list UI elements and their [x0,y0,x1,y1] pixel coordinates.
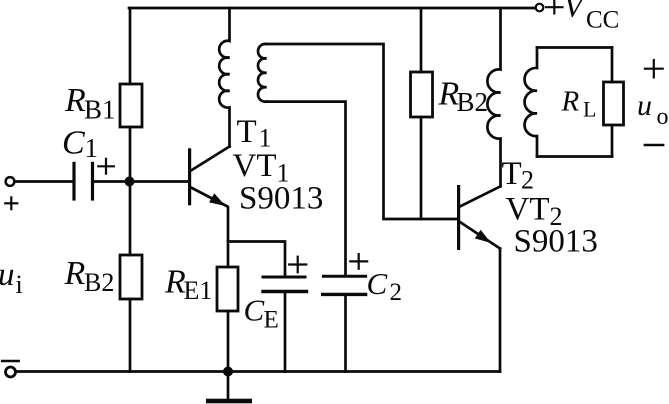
junction dot ground node [223,367,233,377]
svg-text:B2: B2 [84,268,114,297]
transformer TR2 secondary winding [525,48,537,157]
label - (output) [645,144,663,147]
wire bottom ground rail [16,370,500,373]
capacitor C_E [263,277,307,372]
junction dot base node [125,177,135,187]
wire input terminal to C1 [15,180,73,183]
svg-text:T: T [502,156,522,192]
svg-text:L: L [583,97,596,122]
svg-text:C: C [367,266,388,301]
capacitor C2 [323,276,366,371]
svg-text:S9013: S9013 [239,181,323,217]
wire C1 to VT1 base [94,180,189,183]
svg-text:R: R [64,82,86,119]
transistor VT1 [188,147,230,207]
svg-text:E: E [264,307,279,334]
svg-text:2: 2 [390,279,403,306]
label +Vcc [546,1,563,13]
svg-text:VT: VT [233,148,277,184]
capacitor C1 [74,163,93,199]
svg-text:E1: E1 [184,276,213,305]
resistor R_B2' (VT2 bias) [411,8,433,219]
svg-text:VT: VT [506,192,550,228]
svg-text:o: o [657,104,669,130]
resistor R_B2 (bias divider lower) [120,182,142,372]
transformer TR1 secondary winding [258,44,267,102]
svg-text:V: V [564,0,587,24]
svg-text:i: i [16,270,23,299]
resistor R_L [604,48,624,157]
polarity + of C_E [289,257,306,273]
svg-text:C: C [62,125,85,162]
svg-text:u: u [0,257,15,293]
input terminal - (bottom) [6,367,16,377]
svg-text:S9013: S9013 [514,224,598,260]
terminal +Vcc [536,4,544,12]
resistor R_B1 [120,8,142,182]
wire VT1 emitter node to C_E [228,242,285,276]
transformer TR1 primary winding [219,8,229,147]
polarity + of C1 [98,159,114,174]
svg-text:B2: B2 [457,87,489,117]
label + (output) [645,60,663,77]
transistor VT2 [457,185,500,372]
label + at input [5,197,17,209]
input terminal + (top) [6,177,15,186]
polarity + of C2 [350,254,367,269]
resistor R_E1 [217,208,238,372]
svg-text:1: 1 [85,133,99,163]
svg-text:C: C [244,293,265,328]
svg-text:CC: CC [586,7,619,34]
wire top +Vcc supply rail [129,7,536,10]
svg-text:u: u [637,89,652,122]
transformer TR2 primary winding [487,8,500,187]
wire load loop top [537,46,612,49]
ground symbol [206,372,252,404]
svg-text:2: 2 [521,166,534,195]
svg-text:B1: B1 [84,95,116,125]
wire TR1 secondary bottom to C2 [267,102,346,275]
wire load loop bottom [537,155,612,158]
svg-text:T: T [237,114,257,150]
label - at input [2,360,18,363]
svg-text:R: R [561,86,580,118]
wire TR1 secondary top to VT2 base node [267,44,457,219]
svg-text:R: R [64,255,86,292]
